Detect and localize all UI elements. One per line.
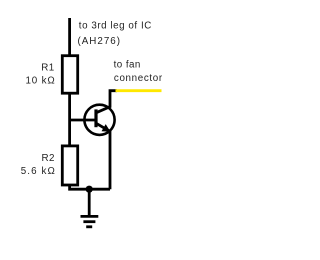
svg-text:10 kΩ: 10 kΩ xyxy=(26,76,56,87)
ground xyxy=(81,189,99,227)
junction node xyxy=(86,186,93,193)
wire to fan connector (yellow) xyxy=(116,89,162,92)
label R2 5.6 kΩ xyxy=(21,153,56,177)
wire base (from divider to Q1) xyxy=(70,119,96,122)
transistor Q1 emitter + wire down xyxy=(96,123,110,189)
resistor R1 xyxy=(62,56,77,93)
svg-text:R1: R1 xyxy=(41,62,54,73)
transistor Q1 collector + wire to fan junction xyxy=(96,91,117,113)
svg-text:(AH276): (AH276) xyxy=(78,36,121,47)
node label: to 3rd leg of IC (AH276) xyxy=(78,21,152,47)
svg-text:to 3rd leg of IC: to 3rd leg of IC xyxy=(79,21,152,32)
label R1 10 kΩ xyxy=(26,62,56,86)
svg-text:to fan: to fan xyxy=(114,60,141,71)
resistor R2 xyxy=(62,146,77,185)
svg-text:5.6 kΩ: 5.6 kΩ xyxy=(21,166,56,177)
node label: to fan connector xyxy=(114,60,163,85)
wire R2 bottom to ground rail xyxy=(70,185,110,189)
wire to IC (top vertical) xyxy=(68,18,71,56)
svg-text:R2: R2 xyxy=(41,153,54,164)
transistor Q1 emitter arrow xyxy=(102,124,111,132)
transistor Q1 body xyxy=(84,105,114,135)
transistor Q1 base bar xyxy=(94,109,97,127)
wire R1 to R2 xyxy=(68,93,71,146)
svg-text:connector: connector xyxy=(114,73,163,84)
